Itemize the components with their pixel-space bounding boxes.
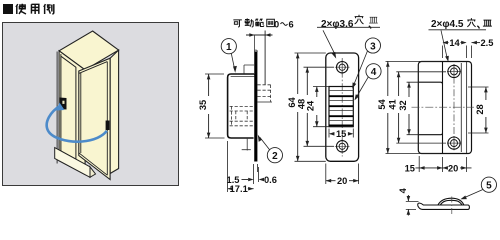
extension lines 54/41/32	[386, 61, 447, 153]
kanji 可	[233, 20, 242, 27]
text 可動範囲0〜6	[233, 18, 274, 27]
leader from circle 5	[464, 190, 483, 199]
strike plate outline	[418, 62, 471, 154]
kanji 皿	[369, 17, 378, 23]
latch plate front	[326, 53, 359, 161]
top hole	[448, 65, 460, 77]
label underline	[429, 29, 487, 31]
bottom dims 1.5 / 0.6	[254, 164, 259, 184]
svg-text:4: 4	[371, 67, 377, 78]
svg-text:35: 35	[198, 100, 208, 110]
bend line	[442, 62, 444, 154]
svg-text:5: 5	[486, 181, 492, 192]
L bracket outline	[228, 74, 255, 138]
svg-text:0.6: 0.6	[264, 175, 277, 185]
cabinet right face	[110, 50, 119, 173]
kanji 範	[255, 19, 263, 26]
left stile outer edge line	[56, 52, 58, 164]
dim 32	[408, 82, 410, 135]
svg-text:15: 15	[405, 163, 415, 173]
dim 41	[398, 72, 400, 143]
dimension 35	[208, 74, 210, 138]
balloon circle 2	[267, 148, 282, 163]
extension line movable range right	[264, 31, 266, 86]
embossed region lines	[418, 82, 442, 135]
horizontal centerline	[412, 106, 475, 108]
vertical centerline	[341, 58, 343, 157]
balloon circle 5	[481, 177, 496, 192]
svg-text:2×φ4.5: 2×φ4.5	[431, 19, 464, 30]
leader from circle 4	[356, 77, 368, 98]
comma	[369, 26, 371, 29]
blue arc arrowhead	[57, 103, 65, 111]
svg-text:24: 24	[306, 100, 316, 111]
svg-text:20: 20	[337, 176, 347, 186]
balloon circle 1	[221, 39, 236, 54]
svg-text:6: 6	[289, 20, 294, 30]
top hole crosshair	[335, 60, 350, 75]
svg-text:17.1: 17.1	[230, 184, 248, 194]
leader to hole	[441, 30, 447, 58]
heading kanji 用	[31, 4, 38, 14]
svg-text:32: 32	[398, 100, 408, 110]
profile centerline	[451, 197, 453, 215]
dim 54	[387, 61, 389, 153]
dim 4	[406, 201, 419, 209]
svg-text:4: 4	[398, 187, 408, 193]
ribbed catch block	[329, 87, 353, 127]
top dim 2.5	[471, 46, 473, 59]
movable range dimension line	[246, 34, 273, 36]
bottom dim 15/20	[419, 156, 466, 172]
catch body on left stile (black)	[60, 98, 67, 110]
mounting plate (heavy line)	[254, 52, 257, 162]
small center mark below bracket	[242, 138, 251, 151]
L bracket inner thickness line	[231, 76, 255, 78]
svg-text:2.5: 2.5	[481, 38, 494, 48]
profile plate	[418, 198, 470, 209]
kanji 動	[245, 18, 253, 27]
svg-text:20: 20	[448, 163, 458, 173]
base plinth right end	[90, 167, 96, 178]
bottom screw hole	[337, 141, 348, 152]
strike plate on door edge (black)	[106, 121, 110, 131]
balloon circle 4	[366, 64, 381, 79]
extension lines 28	[468, 87, 489, 133]
rib thick lines	[329, 96, 353, 125]
inner bend lines	[461, 62, 466, 153]
rib thin lines	[329, 91, 353, 121]
svg-text:14: 14	[449, 38, 460, 48]
cabinet top face	[59, 31, 119, 70]
dim 24 line	[316, 87, 318, 127]
label underline	[317, 26, 380, 28]
heading kanji 例	[44, 4, 54, 14]
dim 20 bottom	[326, 164, 359, 185]
top dim 14	[443, 46, 467, 59]
open door thickness lines	[79, 62, 108, 176]
leader from circle 2	[260, 137, 270, 150]
extension lines for 35	[205, 74, 225, 138]
svg-text:0: 0	[274, 20, 279, 30]
comma	[477, 26, 479, 29]
svg-text:2: 2	[272, 151, 278, 162]
dim 28	[485, 87, 487, 133]
balloon circle 3	[365, 38, 380, 53]
svg-text:2×φ3.6: 2×φ3.6	[321, 19, 354, 30]
hidden dashed slider box lower	[230, 106, 254, 125]
leader from circle 3	[354, 51, 368, 86]
heading black square	[3, 4, 13, 14]
plate left thin edge	[254, 35, 256, 161]
dim 48 line	[306, 67, 308, 146]
kanji 皿	[483, 20, 492, 26]
bottom hole crosshair	[447, 136, 461, 150]
heading kanji 使	[16, 4, 26, 14]
kanji 穴	[467, 18, 475, 27]
dim 15 inside	[329, 129, 353, 138]
svg-text:41: 41	[388, 99, 398, 109]
short ledge line right of plate	[244, 65, 254, 74]
base plinth slab	[55, 148, 90, 178]
top screw hole	[337, 61, 348, 72]
leader to top hole	[323, 30, 335, 55]
top hole crosshair	[447, 64, 461, 78]
open door panel	[79, 58, 110, 179]
svg-text:15: 15	[336, 129, 346, 139]
cabinet front face	[59, 51, 85, 175]
extension lines 64/48/24	[295, 53, 335, 161]
svg-text:54: 54	[377, 99, 387, 110]
closed left door panel	[61, 56, 76, 159]
svg-text:3: 3	[370, 41, 376, 52]
kanji 囲	[267, 19, 275, 26]
svg-text:1: 1	[226, 42, 232, 53]
dim 64 line	[297, 53, 299, 161]
bottom hole	[448, 137, 460, 149]
hidden dashed catch box upper	[258, 85, 271, 102]
leader from circle 1	[231, 53, 234, 69]
svg-text:28: 28	[475, 104, 485, 114]
door swing blue arc	[47, 106, 107, 142]
kanji 穴	[355, 15, 364, 24]
left stile inner edge line	[60, 54, 62, 158]
dimension 17.1	[227, 141, 229, 192]
bottom hole crosshair	[335, 139, 350, 154]
usage example box	[3, 23, 179, 186]
vertical centerline	[453, 64, 455, 151]
